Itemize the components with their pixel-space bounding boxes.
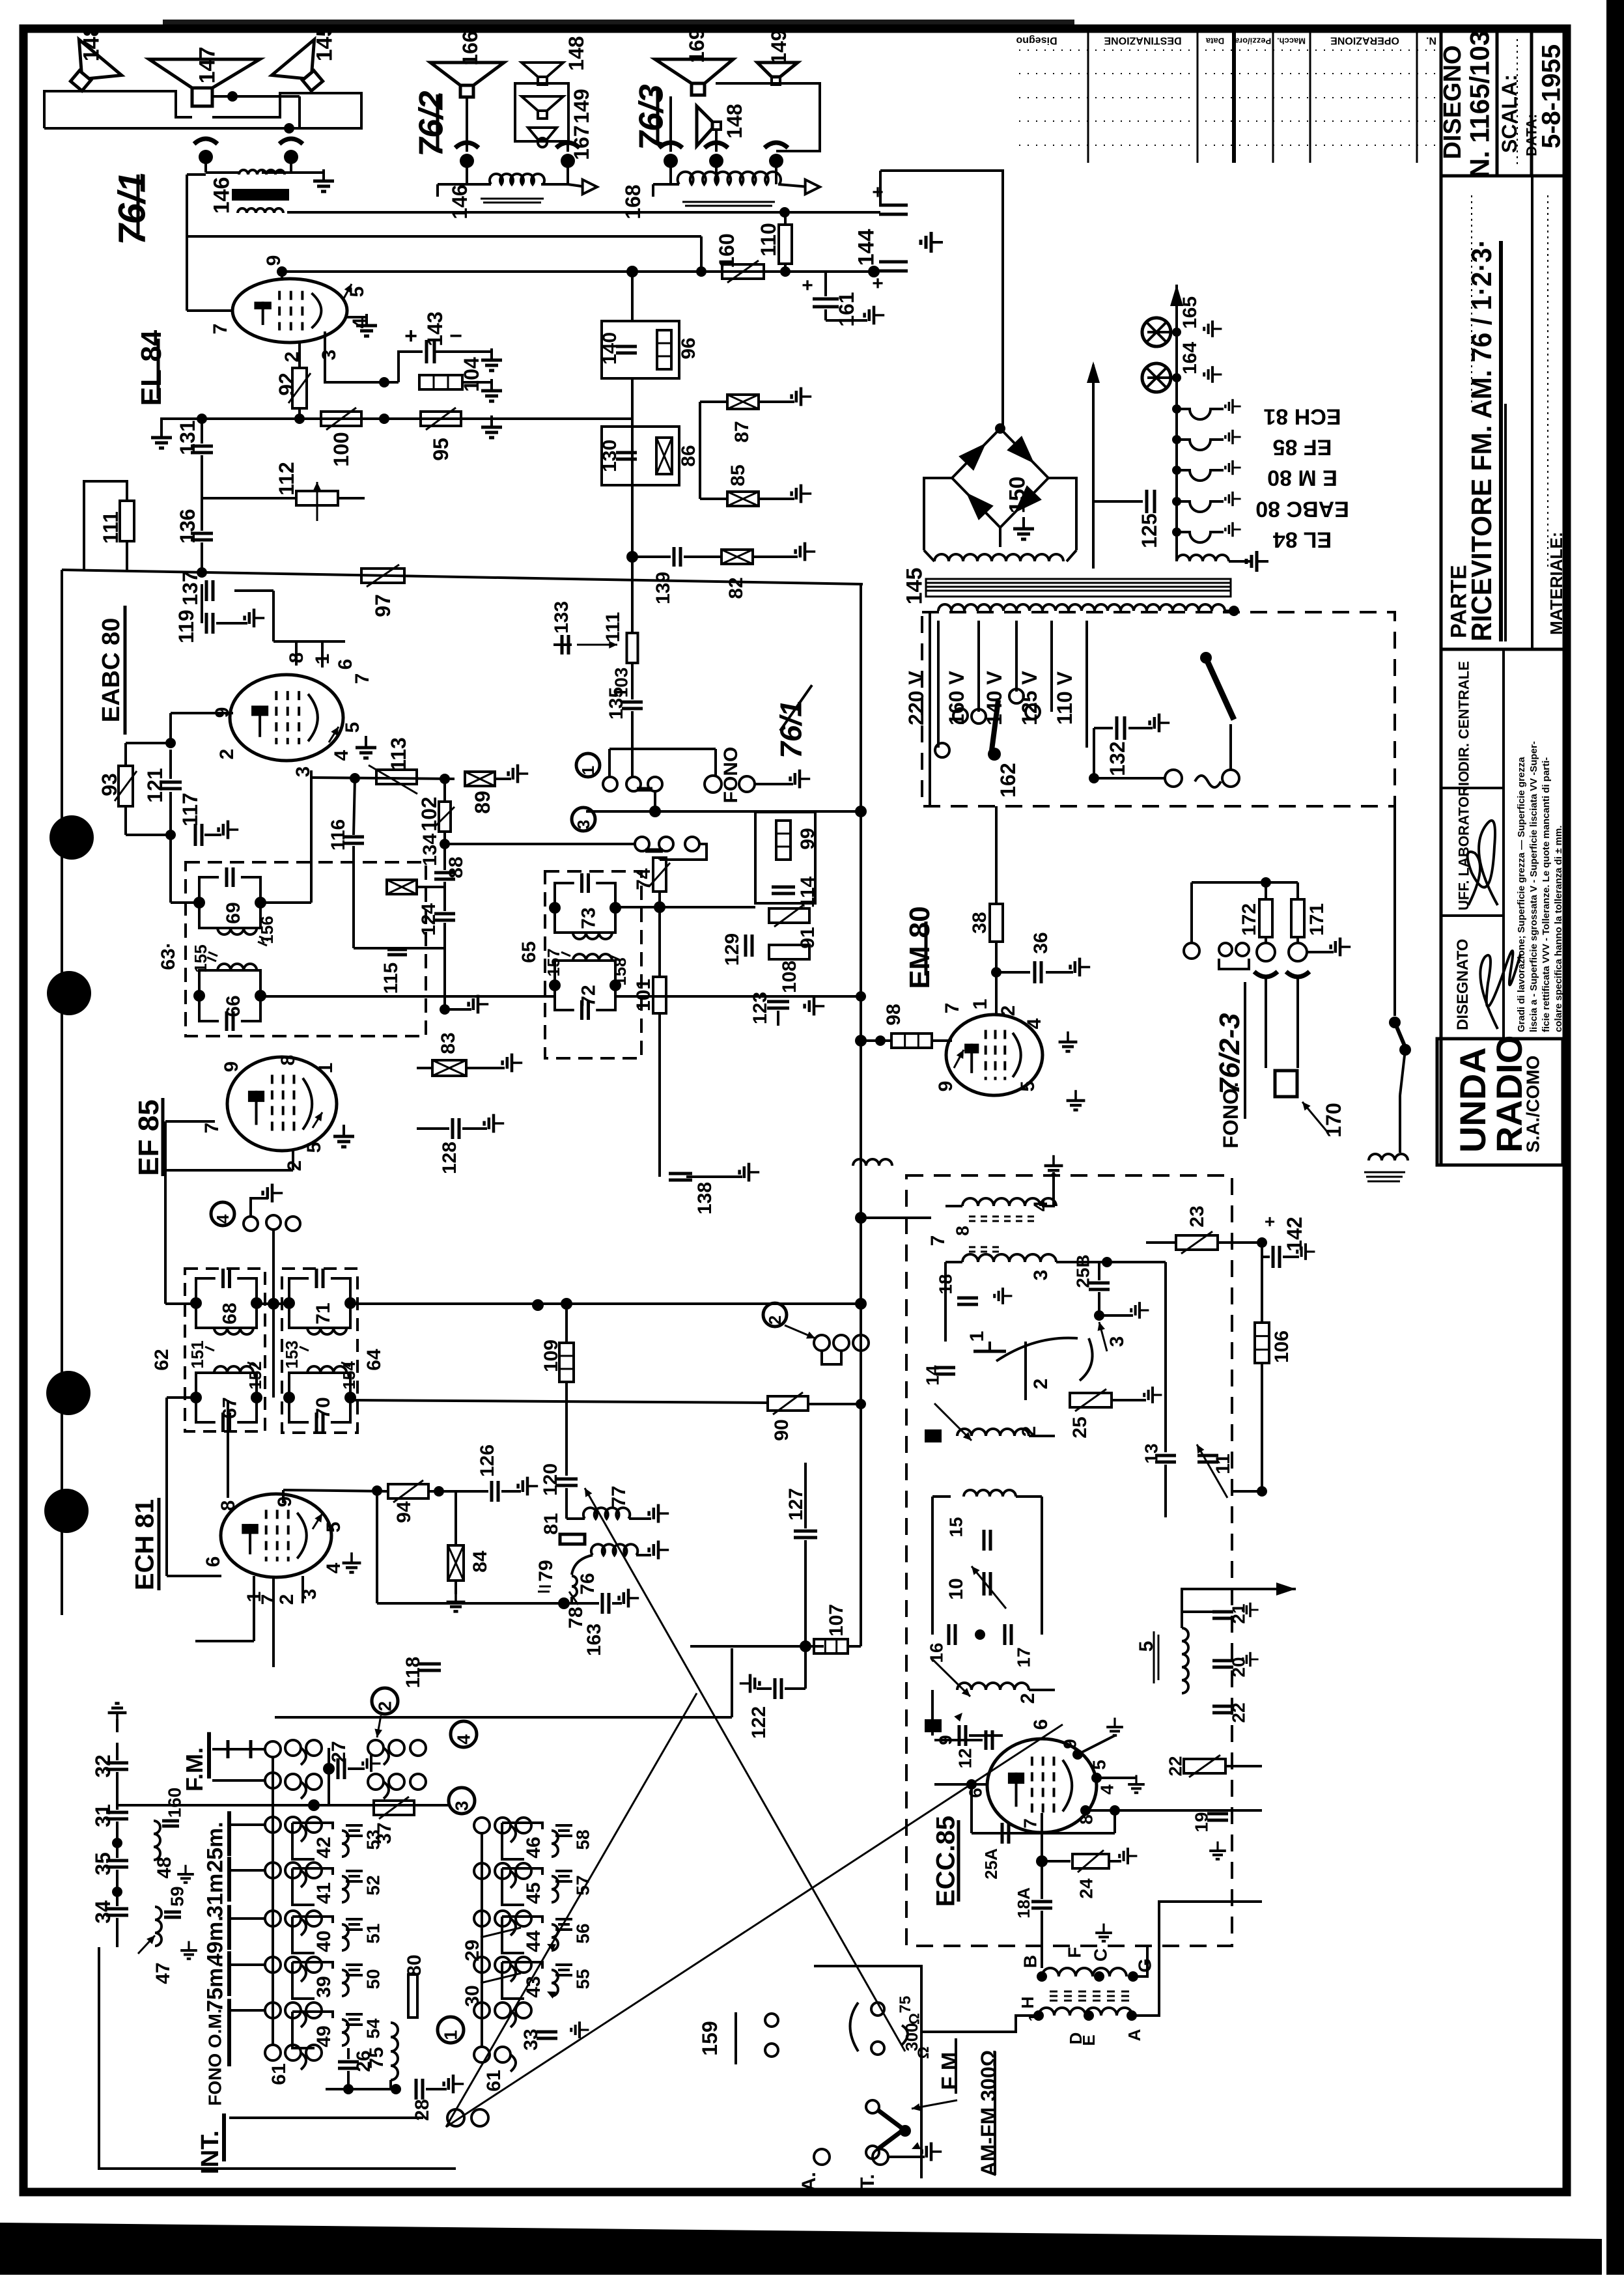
svg-text:EABC 80: EABC 80 xyxy=(1255,496,1349,521)
svg-text:72: 72 xyxy=(578,985,599,1006)
svg-text:15: 15 xyxy=(946,1517,966,1537)
svg-text:148: 148 xyxy=(723,104,746,138)
svg-text:−: − xyxy=(449,324,462,348)
svg-text:45: 45 xyxy=(523,1882,544,1904)
svg-text:75m.: 75m. xyxy=(203,1962,228,2012)
svg-text:RICEVITORE FM. AM. 76 / 1·2·3: RICEVITORE FM. AM. 76 / 1·2·3· xyxy=(1466,239,1498,641)
svg-text:1: 1 xyxy=(966,1331,988,1342)
svg-text:A: A xyxy=(1125,2029,1144,2041)
svg-text:6: 6 xyxy=(335,659,356,670)
svg-text:168: 168 xyxy=(621,184,645,219)
svg-text:8: 8 xyxy=(1076,1814,1097,1825)
svg-text:F: F xyxy=(1065,1947,1085,1958)
svg-text:49m.: 49m. xyxy=(203,1915,228,1966)
svg-text:22: 22 xyxy=(1166,1756,1186,1776)
svg-text:51: 51 xyxy=(363,1923,384,1943)
svg-text:29: 29 xyxy=(462,1939,483,1961)
svg-text:DIR. CENTRALE: DIR. CENTRALE xyxy=(1455,661,1472,772)
svg-text:4: 4 xyxy=(331,750,352,761)
svg-text:2: 2 xyxy=(765,1315,785,1325)
svg-text:19: 19 xyxy=(1192,1812,1212,1832)
svg-text:25B: 25B xyxy=(1073,1254,1093,1287)
svg-text:139: 139 xyxy=(652,572,674,604)
svg-text:76/1: 76/1 xyxy=(774,700,808,759)
svg-text:142: 142 xyxy=(1283,1216,1306,1251)
svg-text:108: 108 xyxy=(779,961,800,993)
svg-text:146: 146 xyxy=(210,177,234,214)
svg-text:61: 61 xyxy=(483,2070,505,2091)
svg-text:157: 157 xyxy=(544,948,563,976)
svg-text:113: 113 xyxy=(387,737,410,771)
svg-text:B: B xyxy=(1020,1955,1041,1968)
svg-text:UFF. LABORATORIO: UFF. LABORATORIO xyxy=(1455,771,1472,910)
svg-text:5: 5 xyxy=(323,1522,344,1533)
svg-text:151: 151 xyxy=(188,1340,207,1368)
svg-text:162: 162 xyxy=(996,763,1020,797)
svg-text:48: 48 xyxy=(154,1857,175,1878)
svg-text:114: 114 xyxy=(797,876,819,908)
svg-text:6: 6 xyxy=(1030,1719,1052,1730)
svg-text:62: 62 xyxy=(151,1349,173,1370)
svg-text:31: 31 xyxy=(91,1804,115,1827)
svg-text:82: 82 xyxy=(725,577,747,598)
svg-text:110: 110 xyxy=(757,223,780,257)
svg-text:50: 50 xyxy=(363,1969,384,1989)
svg-text:52: 52 xyxy=(363,1875,384,1895)
svg-text:Pezzi/ora: Pezzi/ora xyxy=(1234,36,1271,46)
svg-text:23: 23 xyxy=(1186,1205,1208,1227)
svg-text:C: C xyxy=(1091,1948,1111,1962)
svg-text:129: 129 xyxy=(721,933,743,966)
svg-text:DISEGNATO: DISEGNATO xyxy=(1454,939,1472,1030)
svg-text:Disegno: Disegno xyxy=(1016,35,1057,46)
svg-text:76/2-3: 76/2-3 xyxy=(1214,1013,1246,1095)
svg-text:DESTINAZIONE: DESTINAZIONE xyxy=(1104,35,1181,46)
svg-text:65: 65 xyxy=(518,941,540,963)
svg-text:150: 150 xyxy=(1005,477,1030,514)
svg-text:5: 5 xyxy=(342,722,363,733)
svg-text:31m.: 31m. xyxy=(203,1867,228,1918)
svg-text:22: 22 xyxy=(1229,1702,1249,1723)
svg-text:148: 148 xyxy=(565,36,588,70)
svg-text:9: 9 xyxy=(274,1497,296,1508)
svg-text:7: 7 xyxy=(201,1123,223,1134)
svg-text:DISEGNO: DISEGNO xyxy=(1439,45,1466,159)
svg-text:1: 1 xyxy=(441,2030,461,2040)
svg-text:17: 17 xyxy=(1014,1647,1034,1667)
svg-text:81: 81 xyxy=(540,1513,562,1534)
svg-text:80: 80 xyxy=(404,1954,425,1976)
svg-text:16: 16 xyxy=(927,1642,947,1663)
svg-text:169: 169 xyxy=(685,28,708,63)
svg-text:96: 96 xyxy=(678,337,699,359)
svg-text:73: 73 xyxy=(578,907,599,929)
svg-text:61: 61 xyxy=(268,2063,290,2085)
svg-text:140: 140 xyxy=(599,332,621,365)
svg-text:5: 5 xyxy=(1089,1760,1110,1770)
svg-text:131: 131 xyxy=(176,420,199,455)
svg-text:64: 64 xyxy=(363,1349,385,1371)
svg-text:88: 88 xyxy=(445,856,467,878)
svg-text:116: 116 xyxy=(328,819,349,851)
svg-text:9: 9 xyxy=(935,1081,957,1092)
svg-text:110 V: 110 V xyxy=(1053,671,1076,725)
svg-text:7: 7 xyxy=(927,1235,949,1246)
svg-text:E M 80: E M 80 xyxy=(1267,465,1337,490)
svg-text:5-8-1955: 5-8-1955 xyxy=(1537,44,1566,148)
svg-text:118: 118 xyxy=(402,1657,424,1688)
svg-text:75: 75 xyxy=(366,2047,387,2068)
svg-text:EM 80: EM 80 xyxy=(904,906,936,989)
svg-text:125: 125 xyxy=(1138,513,1161,548)
svg-text:7: 7 xyxy=(1020,1818,1041,1829)
svg-text:9: 9 xyxy=(221,1062,242,1073)
svg-text:5: 5 xyxy=(303,1142,325,1153)
svg-text:220 V: 220 V xyxy=(904,671,928,725)
svg-text:164: 164 xyxy=(1179,342,1201,374)
svg-text:93: 93 xyxy=(98,773,121,796)
svg-text:25m.: 25m. xyxy=(203,1821,228,1872)
svg-text:112: 112 xyxy=(275,462,298,496)
svg-text:5: 5 xyxy=(1017,1081,1039,1092)
svg-text:160 V: 160 V xyxy=(945,671,968,725)
svg-text:Ω: Ω xyxy=(906,2013,922,2025)
svg-text:55: 55 xyxy=(573,1969,593,1989)
svg-text:3: 3 xyxy=(318,350,340,361)
svg-text:153: 153 xyxy=(282,1340,301,1368)
svg-text:27: 27 xyxy=(328,1741,350,1762)
svg-text:34: 34 xyxy=(91,1900,115,1924)
svg-text:ficie rettificata VVV - Toller: ficie rettificata VVV - Tolleranze. Le q… xyxy=(1541,757,1552,1032)
svg-text:25: 25 xyxy=(1069,1416,1091,1438)
svg-text:EABC 80: EABC 80 xyxy=(98,618,125,723)
svg-text:68: 68 xyxy=(219,1302,240,1324)
svg-text:+: + xyxy=(872,273,884,294)
svg-text:2: 2 xyxy=(276,1594,298,1605)
svg-text:4: 4 xyxy=(323,1562,344,1573)
svg-text:124: 124 xyxy=(418,903,440,936)
svg-text:49: 49 xyxy=(313,2025,335,2047)
svg-text:56: 56 xyxy=(573,1923,593,1943)
svg-text:163: 163 xyxy=(583,1624,605,1656)
svg-text:7: 7 xyxy=(942,1003,963,1014)
svg-text:25A: 25A xyxy=(981,1848,1001,1879)
svg-text:171: 171 xyxy=(1306,903,1328,936)
svg-text:18A: 18A xyxy=(1014,1887,1033,1919)
svg-text:127: 127 xyxy=(785,1488,807,1521)
svg-text:EL 84: EL 84 xyxy=(1273,527,1332,552)
svg-text:4: 4 xyxy=(454,1734,474,1745)
svg-text:83: 83 xyxy=(438,1032,459,1054)
svg-text:149: 149 xyxy=(570,89,593,123)
svg-text:Macch.: Macch. xyxy=(1277,36,1306,46)
svg-text:76/3: 76/3 xyxy=(633,84,671,150)
svg-text:77: 77 xyxy=(608,1485,630,1507)
svg-text:133: 133 xyxy=(551,601,572,634)
svg-text:8: 8 xyxy=(217,1500,239,1512)
svg-text:43: 43 xyxy=(523,1976,544,1997)
svg-text:160: 160 xyxy=(715,233,738,268)
svg-text:28: 28 xyxy=(412,2099,433,2120)
svg-text:57: 57 xyxy=(573,1875,593,1895)
svg-text:2: 2 xyxy=(375,1701,395,1711)
svg-text:106: 106 xyxy=(1271,1330,1293,1363)
svg-text:135: 135 xyxy=(606,687,627,720)
svg-text:E: E xyxy=(1079,2034,1099,2046)
svg-text:117: 117 xyxy=(178,793,202,826)
svg-text:6: 6 xyxy=(966,1788,986,1798)
svg-text:166: 166 xyxy=(458,31,482,65)
svg-text:12: 12 xyxy=(955,1748,975,1768)
svg-text:A.: A. xyxy=(798,2172,820,2191)
svg-text:2: 2 xyxy=(1017,1693,1039,1704)
svg-text:32: 32 xyxy=(91,1754,115,1778)
svg-text:104: 104 xyxy=(460,357,483,392)
svg-text:75: 75 xyxy=(897,1996,914,2014)
svg-text:144: 144 xyxy=(854,229,879,266)
svg-text:165: 165 xyxy=(1179,296,1201,329)
svg-text:99: 99 xyxy=(797,828,819,849)
svg-text:36: 36 xyxy=(1030,932,1052,953)
svg-text:145: 145 xyxy=(903,568,927,605)
svg-text:+: + xyxy=(404,324,417,348)
svg-text:149: 149 xyxy=(767,29,791,64)
svg-text:9: 9 xyxy=(1060,1739,1080,1749)
svg-text:100: 100 xyxy=(329,432,353,466)
svg-text:T.: T. xyxy=(857,2174,878,2189)
svg-text:2: 2 xyxy=(216,749,238,760)
svg-text:colare specifica hanno la toll: colare specifica hanno la tolleranza di … xyxy=(1553,826,1564,1033)
svg-text:87: 87 xyxy=(731,421,753,442)
svg-text:EF 85: EF 85 xyxy=(1273,434,1332,459)
svg-text:Data: Data xyxy=(1205,36,1224,46)
svg-text:30: 30 xyxy=(462,1985,483,2006)
svg-text:76: 76 xyxy=(577,1573,598,1594)
svg-text:MATERIALE:: MATERIALE: xyxy=(1547,532,1566,635)
svg-text:+: + xyxy=(872,182,884,203)
svg-text:EL 84: EL 84 xyxy=(135,330,167,406)
svg-text:145: 145 xyxy=(313,25,337,62)
svg-text:Ω: Ω xyxy=(915,2046,932,2059)
svg-text:138: 138 xyxy=(694,1182,716,1215)
svg-text:18: 18 xyxy=(936,1274,956,1294)
svg-text:46: 46 xyxy=(523,1836,544,1858)
svg-text:67: 67 xyxy=(219,1397,240,1418)
svg-text:Gradi di lavorazione; Superfic: Gradi di lavorazione; Superficie grezza … xyxy=(1516,757,1527,1032)
svg-text:128: 128 xyxy=(439,1142,460,1174)
svg-text:3: 3 xyxy=(1030,1270,1052,1281)
svg-text:148: 148 xyxy=(79,25,104,62)
svg-text:143: 143 xyxy=(423,311,447,346)
svg-text:132: 132 xyxy=(1106,741,1129,776)
svg-text:AM-FM 300Ω: AM-FM 300Ω xyxy=(977,2050,1000,2177)
svg-text:98: 98 xyxy=(883,1004,904,1025)
svg-text:121: 121 xyxy=(143,768,167,802)
svg-text:N.: N. xyxy=(1426,35,1436,46)
svg-text:92: 92 xyxy=(275,373,298,396)
svg-text:13: 13 xyxy=(1141,1443,1162,1463)
svg-text:119: 119 xyxy=(175,610,198,643)
svg-text:1: 1 xyxy=(578,766,598,775)
svg-text:8: 8 xyxy=(277,1055,299,1066)
svg-text:95: 95 xyxy=(429,438,453,461)
svg-text:94: 94 xyxy=(393,1501,415,1523)
svg-text:FONO O.M.: FONO O.M. xyxy=(205,2008,225,2105)
svg-text:ECH 81: ECH 81 xyxy=(131,1499,160,1590)
svg-text:86: 86 xyxy=(678,445,699,466)
svg-text:71: 71 xyxy=(313,1302,334,1324)
svg-text:85: 85 xyxy=(727,464,749,486)
svg-text:+: + xyxy=(802,275,813,296)
svg-text:54: 54 xyxy=(363,2018,384,2039)
svg-text:107: 107 xyxy=(826,1604,847,1637)
svg-text:10: 10 xyxy=(945,1578,967,1599)
svg-text:38: 38 xyxy=(969,912,990,933)
svg-text:OPERAZIONE: OPERAZIONE xyxy=(1330,35,1399,46)
svg-text:63·: 63· xyxy=(158,942,179,970)
svg-text:122: 122 xyxy=(748,1706,770,1739)
svg-text:8: 8 xyxy=(953,1226,973,1236)
svg-text:126: 126 xyxy=(477,1444,498,1477)
svg-text:7: 7 xyxy=(210,324,231,335)
svg-text:136: 136 xyxy=(176,509,199,543)
svg-text:147: 147 xyxy=(195,47,220,84)
svg-text:42: 42 xyxy=(313,1836,335,1858)
svg-text:4: 4 xyxy=(1024,1018,1045,1029)
svg-text:ECC.85: ECC.85 xyxy=(932,1816,960,1907)
svg-text:ECH 81: ECH 81 xyxy=(1263,404,1341,429)
svg-text:6: 6 xyxy=(203,1556,224,1568)
svg-text:1: 1 xyxy=(970,999,991,1010)
svg-text:109: 109 xyxy=(540,1340,562,1372)
svg-text:1: 1 xyxy=(315,1063,337,1074)
svg-text:134: 134 xyxy=(419,834,441,866)
svg-text:7: 7 xyxy=(352,673,373,684)
svg-text:130: 130 xyxy=(599,440,621,472)
svg-text:24: 24 xyxy=(1076,1878,1097,1899)
svg-text:F.M.: F.M. xyxy=(181,1747,208,1792)
svg-text:76/1: 76/1 xyxy=(111,172,154,246)
svg-text:2: 2 xyxy=(1030,1379,1052,1390)
svg-text:40: 40 xyxy=(313,1930,335,1952)
svg-text:4: 4 xyxy=(1097,1784,1117,1795)
svg-text:102: 102 xyxy=(417,796,441,831)
svg-text:G: G xyxy=(1135,1958,1155,1973)
svg-text:111: 111 xyxy=(99,511,122,544)
svg-text:4: 4 xyxy=(213,1214,232,1224)
svg-text:H: H xyxy=(1018,1997,1037,2009)
svg-text:14: 14 xyxy=(923,1365,943,1386)
svg-text:F M: F M xyxy=(938,2052,962,2090)
svg-text:74: 74 xyxy=(633,868,654,890)
svg-text:115: 115 xyxy=(380,963,402,994)
svg-text:33: 33 xyxy=(520,2029,542,2050)
svg-text:35: 35 xyxy=(91,1852,115,1876)
svg-text:59: 59 xyxy=(167,1886,188,1906)
svg-text:84: 84 xyxy=(469,1551,491,1573)
svg-text:3: 3 xyxy=(1106,1336,1128,1347)
svg-text:S.A./COMO: S.A./COMO xyxy=(1523,1056,1543,1153)
svg-text:159: 159 xyxy=(698,2021,721,2055)
svg-text:58: 58 xyxy=(573,1829,593,1849)
svg-text:79: 79 xyxy=(535,1560,557,1581)
svg-text:89: 89 xyxy=(471,791,494,814)
svg-text:172: 172 xyxy=(1239,903,1260,936)
svg-text:69: 69 xyxy=(223,902,244,923)
svg-text:155: 155 xyxy=(191,944,210,972)
svg-text:160: 160 xyxy=(165,1788,185,1818)
svg-text:66: 66 xyxy=(223,995,244,1017)
svg-text:111: 111 xyxy=(602,612,624,643)
svg-text:137: 137 xyxy=(178,570,202,605)
svg-text:76/2: 76/2 xyxy=(413,91,451,156)
svg-text:170: 170 xyxy=(1322,1103,1345,1137)
svg-text:3: 3 xyxy=(574,820,593,829)
svg-text:2: 2 xyxy=(998,1005,1019,1017)
svg-text:9: 9 xyxy=(263,255,285,266)
svg-text:146: 146 xyxy=(448,184,471,219)
svg-text:120: 120 xyxy=(540,1463,561,1496)
svg-text:N. 1165/103: N. 1165/103 xyxy=(1464,31,1494,178)
svg-text:UNDA: UNDA xyxy=(1452,1047,1493,1153)
svg-text:+: + xyxy=(1265,1211,1275,1231)
svg-text:11: 11 xyxy=(1212,1454,1234,1474)
svg-text:158: 158 xyxy=(610,957,630,985)
svg-text:90: 90 xyxy=(771,1419,792,1441)
svg-text:39: 39 xyxy=(313,1976,335,1997)
svg-text:41: 41 xyxy=(313,1882,335,1904)
svg-text:FONO: FONO xyxy=(720,747,742,804)
svg-text:47: 47 xyxy=(152,1962,174,1984)
svg-text:53: 53 xyxy=(363,1829,384,1849)
svg-text:liscia a - Superficie sgrossat: liscia a - Superficie sgrossata V - Supe… xyxy=(1528,741,1539,1032)
svg-text:3: 3 xyxy=(452,1801,472,1811)
svg-text:97: 97 xyxy=(371,594,395,617)
svg-text:EF 85: EF 85 xyxy=(133,1099,165,1175)
svg-text:44: 44 xyxy=(523,1930,544,1952)
svg-text:70: 70 xyxy=(313,1397,334,1418)
